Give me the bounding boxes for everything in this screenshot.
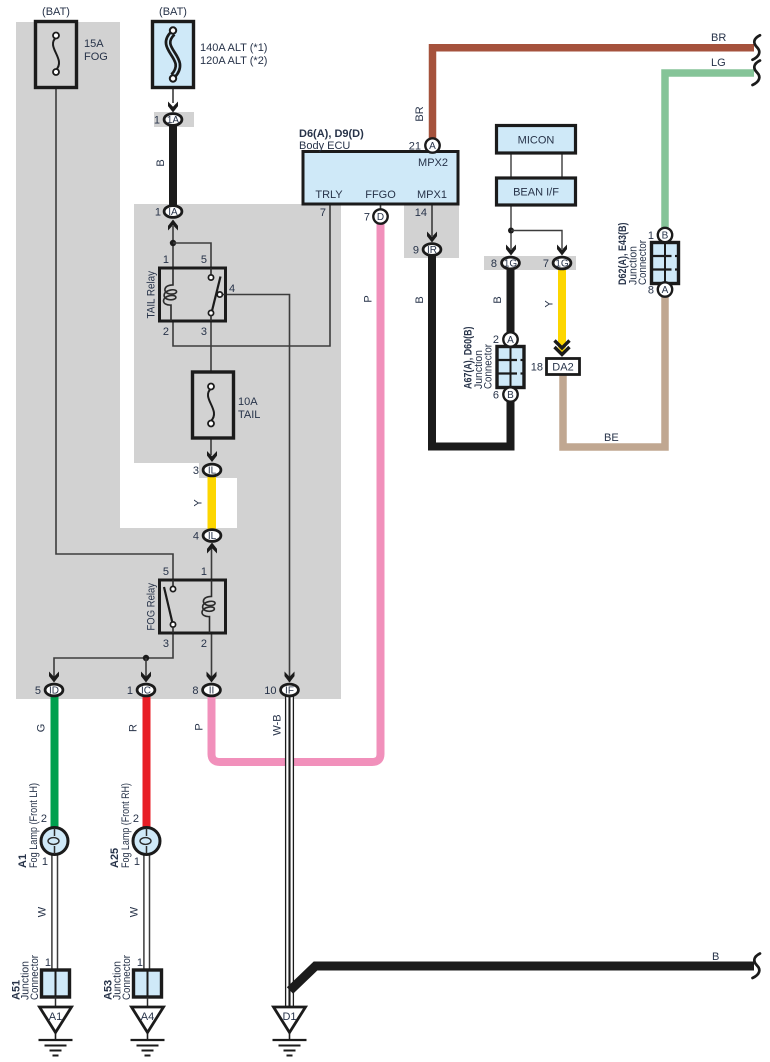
svg-text:Connector: Connector <box>483 344 495 389</box>
fusible link 140A/120A ALT <box>153 22 194 88</box>
svg-text:B: B <box>712 951 719 963</box>
connector pin 4 IL <box>193 530 221 543</box>
svg-text:Connector: Connector <box>637 240 649 285</box>
svg-text:W: W <box>37 906 49 917</box>
pin 1 A51 <box>45 957 51 969</box>
junction connector A67(A), D60(B) <box>497 347 524 388</box>
wire R (red): connector IC to fog lamp A25 <box>143 696 151 829</box>
svg-text:TRLY: TRLY <box>315 189 343 201</box>
node: junction dot below BEAN I/F <box>508 228 514 234</box>
connector pin 5 ID <box>35 684 63 697</box>
wire Y (yellow): connector 7 1G to connector DA2 <box>558 268 566 354</box>
svg-text:A: A <box>429 141 436 152</box>
svg-text:5: 5 <box>35 685 41 697</box>
pin A circle of A67 <box>503 332 517 346</box>
svg-text:1: 1 <box>42 856 48 868</box>
junction connector D62(A), E43(B) <box>652 243 679 284</box>
svg-text:7: 7 <box>543 258 549 270</box>
svg-text:W: W <box>129 906 141 917</box>
MICON box <box>497 126 576 154</box>
arrow up into IA <box>168 220 178 231</box>
wire: Body ECU FFGO stub to pin D <box>380 204 382 210</box>
svg-text:Y: Y <box>544 300 556 308</box>
svg-text:LG: LG <box>711 57 726 69</box>
wire: fuse 15A FOG to FOG relay pin 5 <box>56 88 173 580</box>
gray panel left <box>16 22 120 699</box>
label wire Y 1G <box>544 300 556 308</box>
svg-text:B: B <box>662 231 669 242</box>
pin A circle of D62 <box>658 282 672 296</box>
svg-text:IL: IL <box>208 531 217 542</box>
wire Y (yellow): connector 3 IL to connector 4 IL <box>208 476 217 529</box>
gray patch MPX1/IR <box>404 204 459 258</box>
ground A1 <box>39 1007 73 1056</box>
svg-text:B: B <box>507 390 514 401</box>
label Fog Lamp (Front LH) <box>28 783 40 868</box>
junction connector A53 <box>134 970 162 1007</box>
arrow into 8 1G <box>506 245 516 256</box>
pin 7 TRLY <box>320 207 326 219</box>
pin B circle of A67 <box>503 387 517 401</box>
double chevron into DA2 <box>555 341 570 355</box>
wire continuation mark LG <box>753 61 761 86</box>
pin 3 FOG relay <box>163 638 169 650</box>
label Junction Connector A67 <box>473 344 495 389</box>
value label 10A TAIL <box>238 396 260 421</box>
svg-text:BR: BR <box>414 106 426 121</box>
wire continuation mark B <box>753 954 761 979</box>
arrow into 7 1G <box>557 245 567 256</box>
svg-text:MPX2: MPX2 <box>418 157 448 169</box>
label A25 fog lamp <box>109 848 121 868</box>
svg-text:P: P <box>194 723 206 730</box>
svg-text:3: 3 <box>193 465 199 477</box>
pin 6 A67 <box>493 390 499 402</box>
fog lamp A25 (Front RH) <box>133 828 160 855</box>
label (BAT) for 15A FOG <box>42 6 70 18</box>
svg-text:Fog Lamp (Front LH): Fog Lamp (Front LH) <box>28 783 40 868</box>
gray band behind 1A <box>154 112 194 127</box>
svg-text:(BAT): (BAT) <box>159 6 187 18</box>
wire G (green): connector ID to fog lamp A1 <box>51 696 59 829</box>
svg-text:TAIL Relay: TAIL Relay <box>146 271 158 319</box>
svg-text:8: 8 <box>648 285 654 297</box>
svg-text:8: 8 <box>192 685 198 697</box>
label wire P vertical <box>363 295 375 302</box>
pin 18 DA2 <box>531 362 543 374</box>
label wire G <box>36 724 48 733</box>
svg-text:2: 2 <box>201 638 207 650</box>
arrow into 3 IL <box>207 451 217 462</box>
gray band behind 1G ovals <box>484 256 576 270</box>
fuse 10A TAIL <box>193 372 234 438</box>
wire W (white double line): fog lamp A1 to junction connector A51 <box>52 854 58 970</box>
label TRLY <box>315 189 343 201</box>
connector pin 1 1A <box>154 114 182 127</box>
connector pin 7 1G <box>543 257 571 270</box>
svg-text:W-B: W-B <box>272 714 284 735</box>
arrow into IR <box>427 232 437 243</box>
connector pin 1 IC <box>127 684 155 697</box>
pin 1 D62 <box>648 230 654 242</box>
arrow into 1A <box>168 102 178 113</box>
wire: TAIL relay pin 3 to fuse 10A TAIL <box>210 321 212 372</box>
label Body ECU <box>299 140 350 152</box>
label wire W A25 <box>129 906 141 917</box>
label D62(A), E43(B) <box>617 222 629 285</box>
connector pin 8 1G <box>491 257 520 270</box>
svg-text:G: G <box>36 724 48 733</box>
svg-text:4: 4 <box>229 283 235 295</box>
wire: fuse 140A ALT to connector 1A <box>172 88 174 103</box>
node: junction dot above IC <box>143 655 149 680</box>
pin B circle of D62 <box>658 228 672 242</box>
pin 1 fog lamp A1 <box>42 856 48 868</box>
label Fog Lamp (Front RH) <box>120 783 132 868</box>
connector pin 9 IR <box>413 244 441 257</box>
Body ECU pin 7 D <box>364 209 388 223</box>
svg-text:1: 1 <box>134 856 140 868</box>
svg-text:IR: IR <box>427 245 437 256</box>
svg-text:BR: BR <box>711 32 726 44</box>
label A1 fog lamp <box>17 854 29 868</box>
pin 2 TAIL relay <box>163 326 169 338</box>
svg-text:6: 6 <box>493 390 499 402</box>
svg-text:15A: 15A <box>84 38 104 50</box>
svg-text:21: 21 <box>409 141 421 153</box>
wire P (pink): Body ECU FFGO pin D to connector II <box>212 223 381 762</box>
svg-text:TAIL: TAIL <box>238 409 260 421</box>
svg-text:140A ALT (*1): 140A ALT (*1) <box>200 42 267 54</box>
wire W (white double line): fog lamp A25 to junction connector A53 <box>144 854 150 970</box>
wire W-B (white-black double line): connector IF to ground D1 <box>285 696 294 1007</box>
wire B (black): ground bus to right edge <box>290 966 754 991</box>
label D6(A), D9(D) <box>299 128 364 140</box>
ground A4 <box>131 1007 165 1056</box>
svg-text:BEAN I/F: BEAN I/F <box>513 187 559 199</box>
svg-text:1: 1 <box>127 685 133 697</box>
label MPX1 <box>417 189 447 201</box>
pin 2 fog lamp A25 <box>133 813 139 825</box>
svg-text:ID: ID <box>49 685 59 696</box>
svg-text:1G: 1G <box>555 258 569 269</box>
label wire Y IL <box>193 499 205 507</box>
label wire BE <box>604 432 619 444</box>
wire: MICON to BEAN I/F (left) <box>510 153 512 178</box>
wire BR (brown): battery to Body ECU pin A <box>433 48 755 139</box>
svg-text:5: 5 <box>163 566 169 578</box>
arrow into IC <box>141 672 151 683</box>
wire: connector IA to TAIL relay pin 1 <box>172 226 174 268</box>
pin 1 TAIL relay <box>163 254 169 266</box>
relay FOG Relay <box>160 580 226 633</box>
wire: connector 4 IL to FOG relay pin 1 <box>211 548 213 580</box>
wire B (black): connector IR to junction connector A67 <box>432 255 511 447</box>
svg-text:A: A <box>662 285 669 296</box>
label (BAT) for 140A ALT <box>159 6 187 18</box>
fog lamp A1 (Front LH) <box>41 828 68 855</box>
ground D1 <box>273 1007 307 1056</box>
label wire BR top <box>711 32 726 44</box>
wire: fuse 10A TAIL to connector 3 IL <box>210 438 212 455</box>
label wire R <box>128 724 140 732</box>
svg-text:14: 14 <box>415 207 427 219</box>
pin 4 TAIL relay <box>229 283 235 295</box>
svg-text:FOG Relay: FOG Relay <box>146 583 158 631</box>
label A51 <box>11 980 23 1000</box>
svg-text:8: 8 <box>491 258 497 270</box>
label wire W A1 <box>37 906 49 917</box>
svg-text:10: 10 <box>264 685 276 697</box>
connector DA2 <box>547 359 580 375</box>
svg-text:D1: D1 <box>282 1011 296 1023</box>
svg-text:120A ALT (*2): 120A ALT (*2) <box>200 55 267 67</box>
label wire B IR <box>414 296 426 303</box>
value label 140A/120A ALT <box>200 42 267 67</box>
wire B (black): connector 1A to connector IA <box>169 125 177 205</box>
svg-text:DA2: DA2 <box>552 362 573 374</box>
pin 2 FOG relay <box>201 638 207 650</box>
wire: TAIL relay pin 4 to connector IF <box>226 295 290 683</box>
label Junction Connector A51 <box>20 955 42 1000</box>
svg-text:1A: 1A <box>167 115 180 126</box>
svg-text:2: 2 <box>493 334 499 346</box>
label wire B 1A-IA <box>155 159 167 166</box>
label wire B bottom <box>712 951 719 963</box>
arrow into II <box>207 672 217 683</box>
svg-text:5: 5 <box>201 254 207 266</box>
svg-text:10A: 10A <box>238 396 258 408</box>
svg-text:1: 1 <box>201 566 207 578</box>
label wire W-B <box>272 714 284 735</box>
svg-text:MICON: MICON <box>518 135 555 147</box>
pin 14 MPX1 <box>415 207 427 219</box>
svg-text:FOG: FOG <box>84 51 108 63</box>
svg-text:1: 1 <box>155 206 161 218</box>
label A53 <box>103 980 115 1000</box>
svg-text:4: 4 <box>193 530 199 542</box>
relay TAIL Relay <box>160 268 226 321</box>
wire BE (beige): connector DA2 to junction connector D62 pin A <box>563 295 665 447</box>
pin 2 fog lamp A1 <box>41 813 47 825</box>
label Junction Connector A53 <box>112 955 134 1000</box>
svg-text:(BAT): (BAT) <box>42 6 70 18</box>
pin 1 A53 <box>137 957 143 969</box>
BEAN I/F box <box>497 178 576 205</box>
svg-text:MPX1: MPX1 <box>417 189 447 201</box>
label wire BR vertical <box>414 106 426 121</box>
wire: TAIL relay pin 2 to Body ECU TRLY pin 7 <box>173 204 330 346</box>
svg-text:Y: Y <box>193 499 205 507</box>
label wire B 1G <box>492 296 504 303</box>
label BEAN I/F <box>513 187 559 199</box>
svg-text:P: P <box>363 295 375 302</box>
svg-text:1G: 1G <box>504 258 518 269</box>
wire continuation mark BR <box>753 35 761 60</box>
wire: FOG relay pin 3 to connectors ID / IC <box>54 633 173 680</box>
label Junction Connector D62 <box>628 240 650 285</box>
arrow into ID <box>49 672 59 683</box>
wire: branch to TAIL relay pin 5 <box>173 243 211 268</box>
svg-text:B: B <box>492 296 504 303</box>
svg-text:Connector: Connector <box>121 955 133 1000</box>
svg-text:II: II <box>209 685 215 696</box>
label wire LG top <box>711 57 726 69</box>
svg-text:BE: BE <box>604 432 619 444</box>
label FOG Relay <box>146 583 158 631</box>
svg-text:1: 1 <box>45 957 51 969</box>
svg-text:FFGO: FFGO <box>365 189 396 201</box>
svg-text:A: A <box>507 335 514 346</box>
label MPX2 <box>418 157 448 169</box>
arrow into IF <box>285 672 295 683</box>
wire: Body ECU MPX1 pin 14 to connector IR <box>431 204 433 236</box>
svg-text:IC: IC <box>141 685 151 696</box>
svg-text:B: B <box>155 159 167 166</box>
pin 1 FOG relay <box>201 566 207 578</box>
svg-text:D: D <box>377 212 384 223</box>
gray panel middle <box>120 204 341 699</box>
svg-text:D6(A), D9(D): D6(A), D9(D) <box>299 128 364 140</box>
svg-text:A1: A1 <box>49 1011 62 1023</box>
label A67(A), D60(B) <box>463 326 475 389</box>
wire: branch to connector 7 1G <box>511 231 562 250</box>
wire B (black): connector 8 1G to junction connector A67 pin A <box>507 268 515 333</box>
pin 3 TAIL relay <box>201 326 207 338</box>
svg-text:18: 18 <box>531 362 543 374</box>
svg-text:7: 7 <box>364 212 370 224</box>
svg-text:2: 2 <box>163 326 169 338</box>
svg-text:B: B <box>414 296 426 303</box>
connector pin 3 IL <box>193 464 221 477</box>
arrow up into 4 IL <box>207 543 217 554</box>
junction connector A51 <box>42 970 70 1007</box>
svg-text:2: 2 <box>133 813 139 825</box>
svg-text:1: 1 <box>163 254 169 266</box>
svg-text:IF: IF <box>285 685 294 696</box>
svg-text:A4: A4 <box>141 1011 154 1023</box>
svg-text:Fog Lamp (Front RH): Fog Lamp (Front RH) <box>120 783 132 868</box>
pin 2 A67 <box>493 334 499 346</box>
label TAIL Relay <box>146 271 158 319</box>
svg-text:1: 1 <box>137 957 143 969</box>
wire LG (light green): to junction connector D62 pin B <box>665 73 754 229</box>
label MICON <box>518 135 555 147</box>
label FFGO <box>365 189 396 201</box>
svg-text:2: 2 <box>41 813 47 825</box>
pin 5 TAIL relay <box>201 254 207 266</box>
wire: MICON to BEAN I/F (right) <box>561 153 563 178</box>
node: junction dot above TAIL relay <box>170 240 176 246</box>
svg-text:1: 1 <box>154 114 160 126</box>
svg-text:3: 3 <box>163 638 169 650</box>
connector pin 1 IA <box>155 206 182 219</box>
Body ECU D6(A), D9(D) <box>303 152 458 205</box>
svg-text:IA: IA <box>168 207 178 218</box>
svg-text:3: 3 <box>201 326 207 338</box>
wire: BEAN I/F to connector 8 1G <box>510 205 512 249</box>
pin 5 FOG relay <box>163 566 169 578</box>
svg-text:9: 9 <box>413 244 419 256</box>
connector pin 8 II <box>192 684 220 697</box>
pin 1 fog lamp A25 <box>134 856 140 868</box>
svg-text:Connector: Connector <box>29 955 41 1000</box>
label wire P II <box>194 723 206 730</box>
svg-text:1: 1 <box>648 230 654 242</box>
wire: FOG relay pin 2 to connector II <box>211 633 213 680</box>
value label 15A FOG <box>84 38 108 63</box>
fuse 15A FOG <box>36 22 77 88</box>
Body ECU pin 21 A <box>409 138 440 152</box>
pin 8 D62 <box>648 285 654 297</box>
svg-text:R: R <box>128 724 140 732</box>
svg-text:Body ECU: Body ECU <box>299 140 350 152</box>
svg-text:7: 7 <box>320 207 326 219</box>
svg-text:IL: IL <box>208 465 217 476</box>
connector pin 10 IF <box>264 684 298 697</box>
